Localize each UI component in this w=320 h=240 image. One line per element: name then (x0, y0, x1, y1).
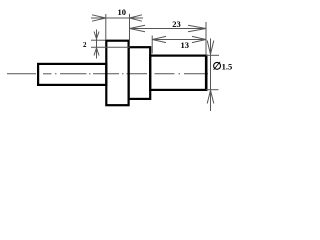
middle right section B (129, 47, 151, 99)
dim 2: bottom extension line (y=47) crossing flange (91, 46, 130, 48)
end face emphasis (205, 55, 208, 92)
dim 10: extension line right (x=129.5) (129, 14, 131, 47)
svg-text:∅1.5: ∅1.5 (213, 61, 233, 73)
shared extension line for 23/13 at shaft end (x=206) (205, 22, 207, 55)
dim 2: vertical dimension line with tails (96, 30, 98, 59)
dim 13: right arrowhead (192, 36, 206, 42)
dim 23: dimension line (130, 28, 207, 30)
dim 2: up arrowhead (94, 48, 99, 56)
dia 1.5: vertical dimension line (210, 39, 212, 112)
dim 10: extension line left (x=105.5) (105, 14, 107, 40)
dim 2: top extension line (y=40) (91, 39, 106, 41)
svg-text:23: 23 (172, 19, 181, 29)
dim 23: right arrowhead (188, 25, 206, 31)
dim 13: left arrowhead (152, 36, 166, 42)
dim 13: dimension line (152, 39, 206, 41)
dia 1.5: bottom extension line (y=89.5) (206, 89, 219, 91)
dim 10: dimension line with outside tails (91, 17, 143, 19)
centerline (dash-dot axis) (7, 73, 208, 75)
dim 2: down arrowhead (94, 32, 99, 39)
left shaft section (small cylinder) (38, 64, 106, 85)
svg-text:2: 2 (83, 41, 87, 49)
svg-text:10: 10 (118, 7, 127, 17)
dim 13: extension line left (x=152) (151, 36, 153, 54)
dim 10: left arrowhead (points right at tip) (92, 15, 106, 21)
dim 23: left arrowhead (130, 25, 146, 31)
dia 1.5: up arrowhead (tip at y=90) (207, 90, 214, 103)
flange section (largest diameter) (106, 41, 128, 106)
end section C (small cylinder at right) (150, 56, 206, 90)
svg-text:13: 13 (180, 40, 189, 50)
dia 1.5: down arrowhead (tip at y=54.5) (207, 41, 214, 55)
dia 1.5: top extension line (y=55) (206, 54, 219, 56)
dim 10: right arrowhead (points left at tip) (130, 15, 143, 21)
